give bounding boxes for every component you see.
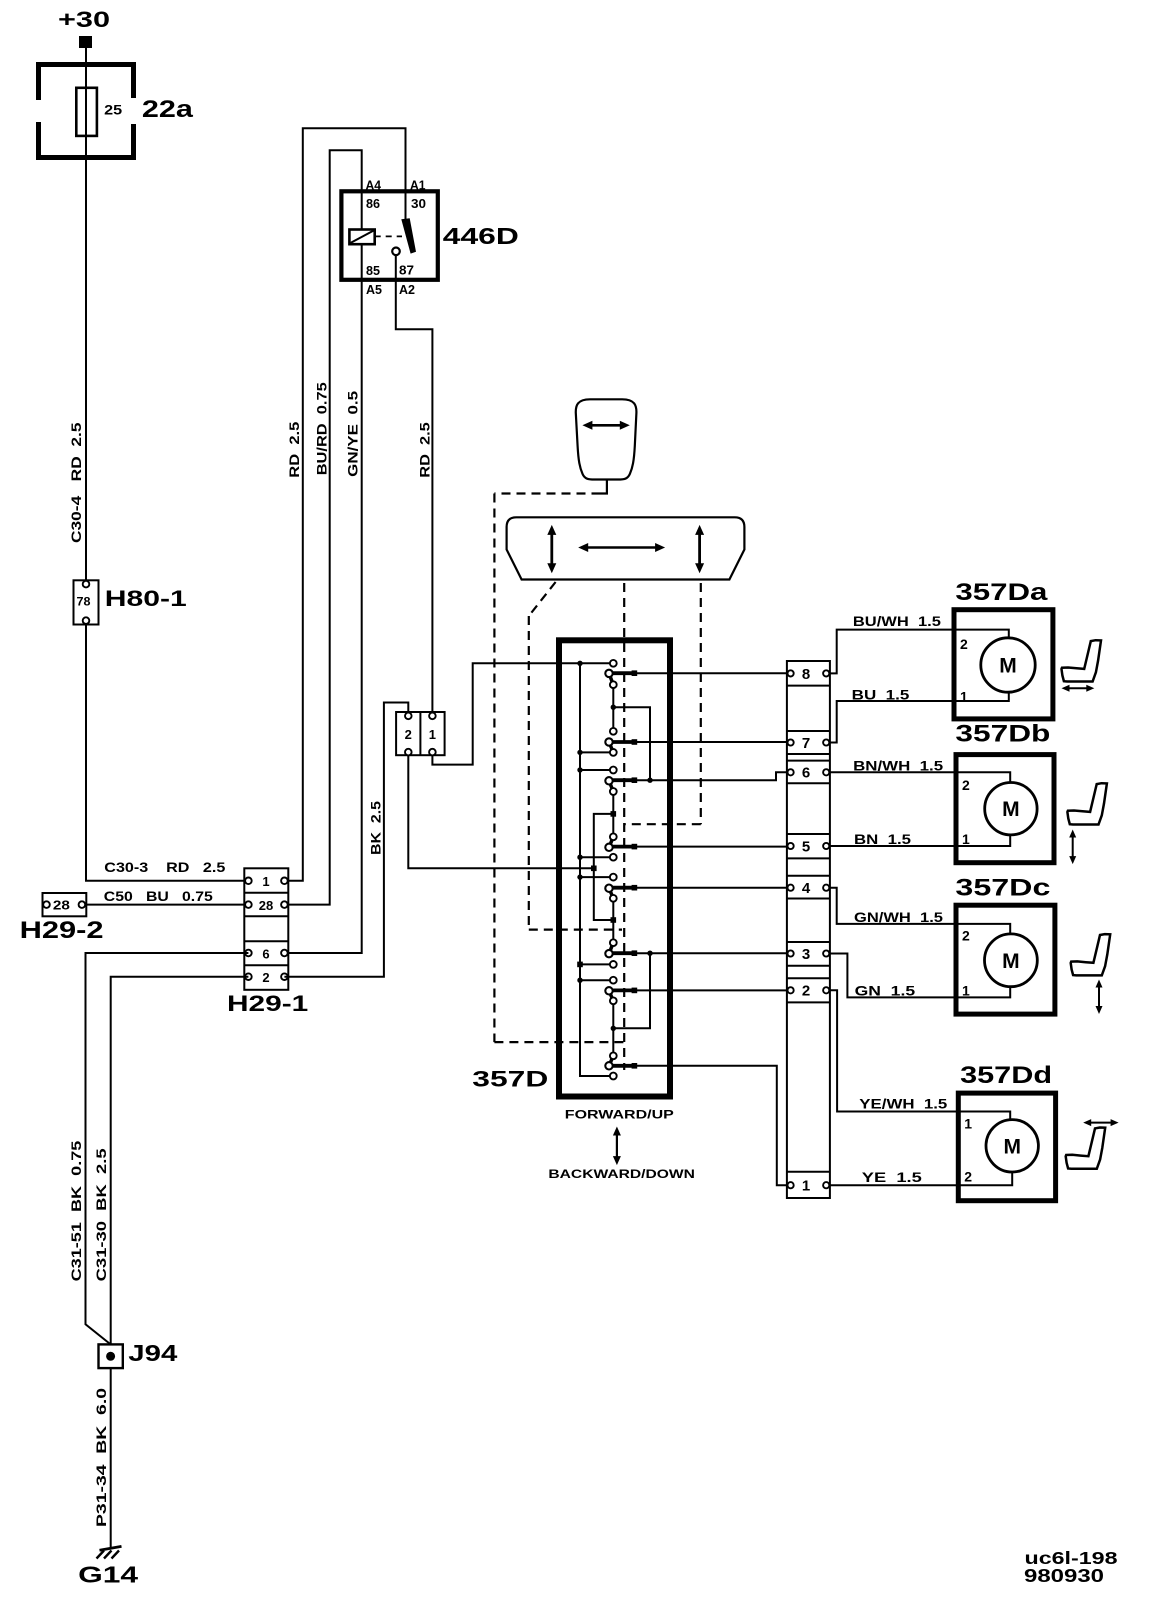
motor 357Db box: [956, 755, 1054, 863]
svg-text:1: 1: [960, 689, 968, 705]
bus feed to row3 lower contact: [580, 963, 610, 965]
connector H80-1 top pin circle: [83, 581, 90, 588]
wire BN/WH 1.5 pin6 to motor 357Db pin2: [830, 772, 1010, 783]
wire C31-30 BK 2.5 from H29-1 pin2 down to J94: [111, 977, 249, 1345]
bus feed to row7 lower contact: [580, 751, 610, 753]
switch contact set row8 (pin8): [611, 671, 634, 675]
junction dot bus-row5: [577, 855, 582, 860]
svg-text:2: 2: [802, 983, 810, 1000]
svg-text:2: 2: [405, 727, 412, 742]
junction dot chain row8: [611, 705, 616, 710]
wire H29-2 to H29-1 pin28: [82, 904, 245, 906]
relay switch blade (pin30 to 87): [401, 218, 416, 253]
strip pin 5 right circle: [823, 843, 829, 849]
svg-text:BU/RD 0.75: BU/RD 0.75: [313, 382, 329, 475]
fuse holder box 22a (dashed border): [39, 65, 134, 158]
junction square BK feed: [591, 866, 597, 872]
junction dot bus-row2: [577, 978, 582, 983]
output connector strip box: [787, 661, 830, 1198]
switch contact set row4 (pin4): [611, 886, 634, 890]
strip pin 3 right circle: [823, 950, 829, 956]
svg-text:M: M: [1002, 798, 1020, 821]
H29-1 pin1 left circle: [245, 878, 252, 885]
svg-text:1: 1: [262, 874, 269, 889]
wire C31-51 BK 0.75 from H29-1 pin6 down to J94: [86, 953, 249, 1344]
junction J94 dot: [106, 1352, 115, 1361]
joystick knob outline: [576, 399, 637, 479]
svg-text:357D: 357D: [472, 1067, 548, 1092]
strip pin 4 right circle: [823, 885, 829, 891]
switch contact set row3 (pin3): [611, 951, 634, 955]
svg-text:1: 1: [964, 1116, 972, 1132]
svg-text:BACKWARD/DOWN: BACKWARD/DOWN: [548, 1167, 695, 1181]
wire +30 down through fuse to H80-1: [85, 48, 87, 584]
svg-text:22a: 22a: [142, 96, 194, 123]
svg-text:A4: A4: [366, 177, 382, 192]
motor 357Dc box: [956, 905, 1055, 1014]
dashed link left rail vertical: [493, 494, 495, 1043]
svg-text:6: 6: [802, 765, 810, 782]
svg-text:1: 1: [429, 727, 436, 742]
strip pin 8 right circle: [823, 670, 829, 676]
wire GN/WH 1.5 pin4 to motor 357Dc pin2: [830, 888, 1010, 935]
link row6 lower to row5 upper contact: [612, 795, 614, 834]
strip pin 1 left circle: [788, 1182, 794, 1188]
link row8 lower to row7 upper contact: [612, 688, 614, 728]
wire GN 1.5 pin3 to motor 357Dc pin1: [830, 954, 1010, 998]
wire BN 1.5 pin5 to motor 357Db pin1: [830, 835, 1010, 846]
svg-text:P31-34 BK 6.0: P31-34 BK 6.0: [93, 1388, 109, 1527]
svg-text:BU/WH 1.5: BU/WH 1.5: [853, 613, 941, 629]
svg-text:357Dd: 357Dd: [960, 1062, 1052, 1089]
relay 446D box: [341, 191, 437, 279]
svg-text:A2: A2: [399, 282, 415, 297]
control panel outline: [507, 517, 745, 579]
dashed link centre vertical through 357D: [623, 583, 625, 1070]
svg-text:G14: G14: [78, 1562, 138, 1588]
junction square chain row4: [611, 917, 617, 923]
wire YE 1.5 pin1 to motor 357Dd pin2: [830, 1172, 1012, 1186]
seat 357Dc motion arrow: [1098, 986, 1100, 1009]
link row4 lower to row3 upper contact: [612, 901, 614, 939]
svg-text:86: 86: [366, 196, 380, 211]
svg-text:28: 28: [53, 898, 70, 913]
svg-text:BU 1.5: BU 1.5: [852, 687, 910, 703]
wire P31-34 BK 6.0 from J94 to ground: [110, 1368, 112, 1547]
panel left vertical double arrow: [550, 533, 553, 565]
svg-text:1: 1: [962, 983, 970, 999]
svg-text:C31-30 BK 2.5: C31-30 BK 2.5: [93, 1148, 109, 1281]
strip pin 8 left circle: [788, 670, 794, 676]
svg-text:C30-4 RD 2.5: C30-4 RD 2.5: [68, 422, 84, 543]
dashed link bottom horizontal into 357D: [494, 1041, 623, 1043]
strip pin 1 right circle: [823, 1182, 829, 1188]
wire from inline connector pin1 to switch row8 contact: [432, 663, 610, 764]
relay coil with diagonal: [349, 230, 374, 245]
svg-text:2: 2: [962, 777, 970, 793]
svg-text:446D: 446D: [443, 223, 519, 249]
seat 357Dd motion arrow: [1089, 1122, 1112, 1124]
wire BK from inline connector pin2 into switch 357D: [408, 755, 591, 868]
motor 357Da box: [954, 610, 1053, 719]
connector H29-2 left pin circle: [43, 901, 50, 908]
seat 357Db motion arrow: [1072, 836, 1074, 859]
svg-text:30: 30: [411, 196, 426, 211]
wire YE/WH 1.5 pin2 to motor 357Dd pin1: [830, 990, 1010, 1120]
svg-text:A1: A1: [410, 177, 426, 192]
svg-text:RD 2.5: RD 2.5: [286, 421, 302, 477]
junction dot row8 feed: [577, 661, 582, 666]
terminal square at +30: [79, 36, 92, 48]
switch contact set row7 (pin7): [611, 740, 634, 744]
ground symbol G14: [100, 1546, 122, 1550]
svg-text:H29-2: H29-2: [20, 917, 104, 944]
svg-text:M: M: [999, 655, 1017, 678]
svg-text:C50 BU 0.75: C50 BU 0.75: [104, 888, 213, 904]
svg-text:2: 2: [962, 928, 970, 944]
seat icon for 357Dc (rear height): [1071, 934, 1111, 975]
H29-1 pin28 right circle: [281, 901, 288, 908]
inline connector pin1 top circle: [429, 713, 436, 720]
svg-text:8: 8: [802, 666, 810, 683]
motor 357Dd box: [958, 1093, 1055, 1201]
svg-text:1: 1: [802, 1178, 810, 1195]
wire RD 2.5 from relay pin 87/A2 down to inline connector pin1: [396, 255, 433, 713]
inline connector box (pins 2,1): [396, 712, 445, 755]
svg-text:3: 3: [802, 946, 810, 963]
motor 357Da armature circle: [981, 638, 1035, 692]
switch 357D box: [559, 640, 670, 1096]
dashed link right horizontal: [624, 823, 701, 825]
motor 357Dd armature circle: [986, 1120, 1038, 1172]
svg-text:C31-51 BK 0.75: C31-51 BK 0.75: [68, 1140, 84, 1281]
svg-text:78: 78: [77, 594, 91, 608]
svg-text:6: 6: [262, 946, 269, 961]
junction dot bus-row6: [577, 767, 582, 772]
svg-text:uc6l-198: uc6l-198: [1025, 1548, 1118, 1568]
svg-text:25: 25: [104, 102, 122, 118]
svg-text:GN/YE 0.5: GN/YE 0.5: [345, 391, 361, 477]
strip pin 7 right circle: [823, 739, 829, 745]
dashed link panel diagonal: [529, 582, 556, 616]
strip pin 7 left circle: [788, 739, 794, 745]
svg-text:H29-1: H29-1: [227, 991, 308, 1016]
switch contact set row5 (pin5): [611, 845, 634, 849]
svg-text:4: 4: [802, 880, 811, 897]
wire GN/YE 0.5 from relay pin 85/A5 down to H29-1 pin6: [284, 244, 361, 953]
svg-text:J94: J94: [128, 1340, 177, 1366]
wire BK 2.5 from H29-1 pin2 to inline connector pin2: [284, 703, 408, 977]
svg-text:GN/WH 1.5: GN/WH 1.5: [854, 909, 943, 925]
strip pin 3 left circle: [788, 950, 794, 956]
connector H80-1 box: [74, 580, 99, 624]
junction row8 chain to pin6 output: [613, 707, 650, 780]
H29-1 pin28 left circle: [245, 901, 252, 908]
svg-text:7: 7: [802, 735, 810, 752]
wire BU/RD 0.75 from H29-1 pin28 up to relay pin 86/A4: [284, 150, 361, 904]
svg-text:357Dc: 357Dc: [955, 874, 1050, 901]
forward/backward double arrow: [616, 1134, 618, 1159]
strip pin 2 left circle: [788, 987, 794, 993]
bus feed to row6 upper contact: [580, 769, 610, 771]
inline connector pin2 top circle: [405, 713, 412, 720]
strip pin 6 right circle: [823, 769, 829, 775]
relay pin 87 contact circle: [392, 248, 400, 256]
H29-1 pin2 left circle: [245, 973, 252, 980]
svg-text:2: 2: [262, 970, 269, 985]
junction row2 chain to pin3 output: [613, 953, 650, 1028]
svg-text:2: 2: [964, 1169, 972, 1185]
dashed link knob to left rail: [494, 492, 600, 494]
svg-text:RD 2.5: RD 2.5: [416, 422, 432, 478]
svg-text:A5: A5: [366, 282, 382, 297]
seat icon for 357Db (front height): [1067, 783, 1107, 824]
knob double arrow: [590, 424, 621, 427]
motor 357Db armature circle: [985, 783, 1037, 835]
switch contact set row6 (pin6): [611, 778, 634, 782]
wire H80-1 down to H29-1 pin1: [86, 621, 248, 881]
svg-text:980930: 980930: [1024, 1566, 1104, 1586]
svg-text:+30: +30: [58, 7, 110, 32]
dashed link right vertical from panel: [700, 583, 702, 824]
switch contact set row1 (pin1): [611, 1064, 634, 1068]
svg-text:28: 28: [259, 898, 273, 913]
svg-text:BN/WH 1.5: BN/WH 1.5: [853, 757, 943, 773]
inline connector pin1 bottom circle: [429, 749, 436, 756]
switch internal bus wire (left): [580, 663, 610, 1076]
link row2 lower to row1 upper contact: [612, 1004, 614, 1053]
svg-text:YE/WH 1.5: YE/WH 1.5: [859, 1096, 947, 1112]
junction square bus-row3: [577, 962, 583, 968]
strip pin 5 left circle: [788, 843, 794, 849]
connector H29-1 box with cells: [244, 868, 288, 990]
svg-text:BK 2.5: BK 2.5: [368, 801, 384, 855]
svg-text:H80-1: H80-1: [105, 586, 187, 611]
strip pin 6 left circle: [788, 769, 794, 775]
connector H29-2 right pin circle: [79, 901, 86, 908]
svg-text:C30-3 RD 2.5: C30-3 RD 2.5: [104, 859, 225, 875]
svg-text:2: 2: [960, 636, 968, 652]
svg-text:M: M: [1003, 1135, 1021, 1158]
bus feed to row4 upper contact: [580, 876, 610, 878]
seat icon for 357Da (slide): [1062, 640, 1102, 681]
svg-text:FORWARD/UP: FORWARD/UP: [565, 1107, 674, 1121]
panel centre horizontal double arrow: [586, 546, 657, 549]
link via left jog to BK feed and row4 chain: [594, 814, 614, 920]
fuse element symbol: [76, 88, 97, 136]
wire BU/WH 1.5 pin8 to motor 357Da pin2: [830, 630, 1009, 674]
svg-text:87: 87: [399, 263, 414, 278]
wire RD 2.5 from H29-1 pin1 up to relay pin 30/A1: [284, 128, 405, 881]
knob stem: [601, 480, 607, 494]
H29-1 pin6 left circle: [245, 950, 252, 957]
strip pin 2 right circle: [823, 987, 829, 993]
junction dot chain row2: [611, 1026, 616, 1031]
svg-text:357Da: 357Da: [955, 579, 1048, 606]
svg-text:BN 1.5: BN 1.5: [854, 831, 911, 847]
svg-text:M: M: [1002, 950, 1020, 973]
dashed link second rail vertical: [528, 616, 530, 930]
motor 357Dc armature circle: [985, 934, 1038, 987]
inline connector pin2 bottom circle: [405, 749, 412, 756]
relay dashed actuator line: [375, 235, 402, 237]
H29-1 pin1 right circle: [281, 878, 288, 885]
wire BU 1.5 pin7 to motor 357Da pin1: [830, 692, 1009, 742]
H29-1 pin2 right circle: [281, 973, 288, 980]
seat icon for 357Dd (slide): [1066, 1128, 1106, 1169]
seat 357Da motion arrow: [1068, 687, 1089, 689]
svg-text:85: 85: [366, 263, 380, 278]
junction dot bus-row7: [577, 750, 582, 755]
svg-text:5: 5: [802, 838, 810, 855]
bus feed to row5 lower contact: [580, 856, 610, 858]
junction square chain row6: [611, 811, 617, 817]
svg-text:GN 1.5: GN 1.5: [855, 982, 916, 998]
connector H80-1 bottom pin circle: [83, 617, 90, 624]
H29-1 pin6 right circle: [281, 950, 288, 957]
junction J94 box: [99, 1344, 123, 1368]
dashed link second horizontal into 357D: [529, 928, 622, 930]
panel right vertical double arrow: [698, 533, 701, 565]
svg-text:YE 1.5: YE 1.5: [862, 1169, 922, 1185]
svg-text:1: 1: [962, 831, 970, 847]
svg-text:357Db: 357Db: [955, 721, 1050, 748]
switch contact set row2 (pin2): [611, 989, 634, 993]
junction dot bus-row4: [577, 874, 582, 879]
connector H29-2 box: [43, 893, 87, 916]
bus feed to row2 upper contact: [580, 979, 610, 981]
strip pin 4 left circle: [788, 885, 794, 891]
